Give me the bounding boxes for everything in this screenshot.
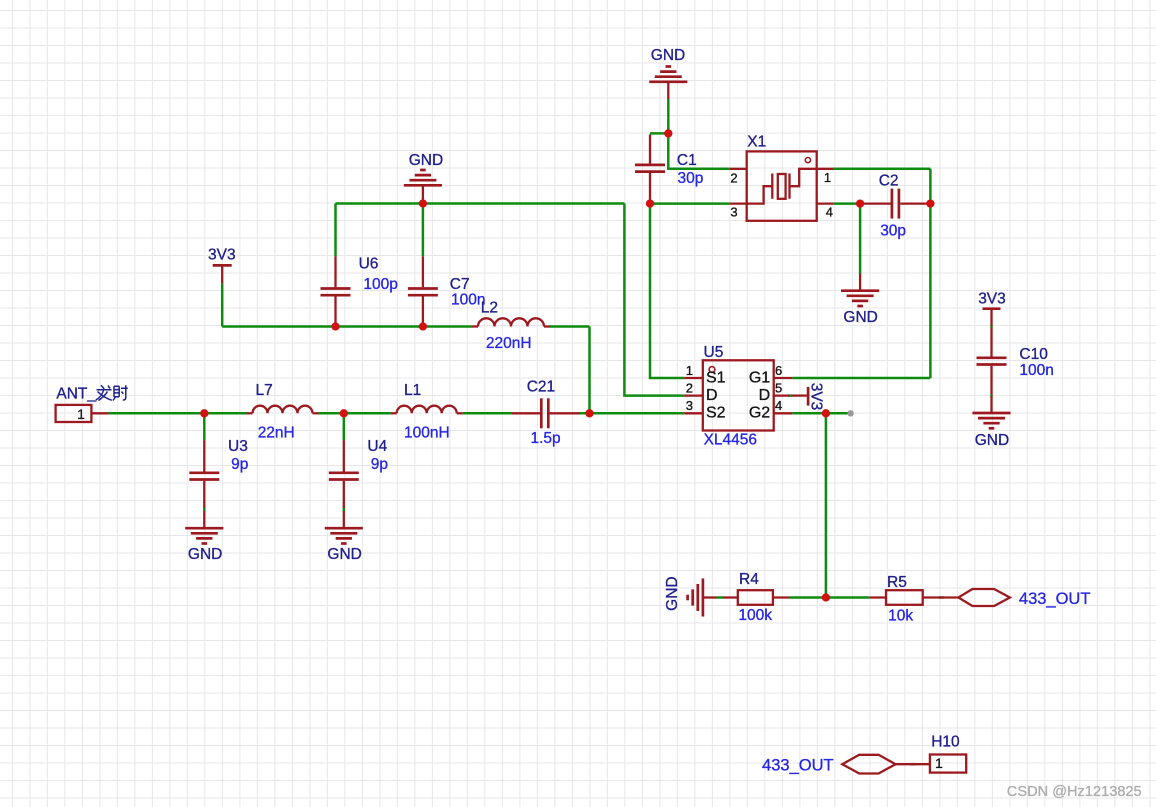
- wire C2 junction to GND: [859, 204, 862, 274]
- svg-text:GND: GND: [975, 432, 1009, 449]
- capacitor C2: [860, 172, 928, 239]
- svg-text:G2: G2: [749, 405, 770, 422]
- ground GND under C10: [972, 396, 1010, 449]
- junction J4 U6 node: [331, 322, 339, 330]
- svg-text:1: 1: [824, 170, 831, 185]
- junction J1 ANT node: [200, 409, 208, 417]
- wire corner down to RF line: [588, 327, 591, 414]
- wire down right side: [929, 169, 932, 378]
- svg-text:C1: C1: [677, 152, 697, 169]
- junction J5 C7 node: [419, 322, 427, 330]
- ground GND U3: [185, 511, 223, 563]
- capacitor C1: [635, 135, 703, 204]
- wire 3V3 stem wire: [221, 283, 224, 326]
- wire X1 pin4 to C2: [834, 202, 861, 205]
- wire pin5 dash: [788, 394, 791, 397]
- svg-text:C21: C21: [527, 378, 555, 395]
- svg-text:U3: U3: [228, 438, 248, 455]
- wire rail to corner: [336, 202, 625, 205]
- wire L2 to corner: [550, 325, 590, 328]
- svg-text:U5: U5: [704, 344, 724, 361]
- wire junction down to U4: [343, 413, 346, 440]
- svg-text:D: D: [706, 387, 718, 404]
- svg-text:GND: GND: [188, 546, 222, 563]
- junction J2 L7-L1 node: [340, 409, 348, 417]
- svg-text:30p: 30p: [880, 223, 906, 240]
- svg-text:R4: R4: [739, 571, 759, 588]
- junction J11 pin4 node: [822, 409, 830, 417]
- svg-text:2: 2: [730, 170, 737, 185]
- svg-text:220nH: 220nH: [486, 335, 532, 352]
- svg-text:10k: 10k: [888, 608, 913, 625]
- junction J7 C1 top node: [664, 129, 672, 137]
- pin 1 label of ANT connector: [77, 406, 85, 422]
- svg-text:6: 6: [775, 363, 782, 378]
- svg-text:L7: L7: [256, 382, 273, 399]
- svg-text:9p: 9p: [371, 456, 388, 473]
- capacitor C21: [511, 378, 580, 447]
- node unconnected marker: [847, 410, 853, 416]
- ground GND top: [649, 47, 687, 99]
- svg-text:3V3: 3V3: [808, 383, 825, 411]
- wire C21 to U5 pin3: [580, 412, 684, 415]
- svg-text:U6: U6: [359, 256, 379, 273]
- svg-text:1: 1: [77, 406, 85, 422]
- wire junction down to U3: [203, 413, 206, 440]
- ground GND under C2: [841, 274, 879, 326]
- svg-text:433_OUT: 433_OUT: [762, 757, 834, 775]
- svg-text:G1: G1: [749, 369, 770, 386]
- crystal X1: [729, 133, 833, 220]
- junction J8 C1 bottom node: [646, 199, 654, 207]
- ground GND at R4: [664, 576, 717, 616]
- wire 3V3 to C10 dash: [990, 325, 993, 328]
- svg-text:22nH: 22nH: [258, 424, 295, 441]
- svg-text:S2: S2: [706, 405, 726, 422]
- wire pin4 down to R line: [825, 413, 828, 597]
- watermark: [1007, 784, 1142, 800]
- capacitor C7: [408, 256, 486, 326]
- svg-text:2: 2: [686, 380, 693, 395]
- connector H10: [930, 733, 966, 772]
- wire rail to U6: [334, 204, 337, 257]
- wire L1 to C21: [463, 412, 512, 415]
- svg-text:GND: GND: [327, 546, 361, 563]
- svg-text:3V3: 3V3: [208, 246, 236, 263]
- svg-text:C2: C2: [879, 172, 899, 189]
- wire C1 bottom to X1 pin3: [650, 202, 729, 205]
- op-amp / IC U5 XL4456: [684, 344, 792, 449]
- svg-text:3: 3: [730, 205, 737, 220]
- svg-text:C10: C10: [1019, 346, 1048, 363]
- wire junction to C1 corner: [650, 132, 668, 135]
- svg-text:X1: X1: [747, 133, 766, 150]
- inductor L1: [391, 382, 463, 442]
- svg-text:1.5p: 1.5p: [531, 430, 561, 447]
- wire U5 pin6 right: [792, 377, 930, 380]
- capacitor U4: [329, 438, 388, 508]
- net flag 433_OUT bottom: [762, 755, 930, 775]
- connector ANT_TX P1: [56, 385, 128, 422]
- wire rail corner to U5 pin2: [624, 204, 684, 396]
- power 3V3 at C10: [978, 291, 1006, 326]
- svg-text:100p: 100p: [363, 276, 397, 293]
- svg-text:3V3: 3V3: [978, 291, 1006, 308]
- wire 3V3 rail: [222, 325, 472, 328]
- svg-text:100nH: 100nH: [404, 424, 450, 441]
- wire L7 to L1: [319, 412, 391, 415]
- svg-text:GND: GND: [843, 309, 877, 326]
- svg-text:S1: S1: [706, 369, 726, 386]
- power 3V3 at U5 pin5: [791, 383, 825, 411]
- svg-text:L1: L1: [404, 382, 421, 399]
- wire R5 hexagon dash: [939, 596, 944, 599]
- wire U4 gnd dash: [343, 508, 346, 511]
- svg-text:100k: 100k: [738, 607, 772, 624]
- svg-text:30p: 30p: [678, 170, 704, 187]
- junction J9 C2 left node: [856, 199, 864, 207]
- junction J3 L2 drop node: [585, 409, 593, 417]
- svg-text:3: 3: [686, 398, 693, 413]
- svg-text:1: 1: [686, 363, 693, 378]
- svg-text:4: 4: [826, 205, 833, 220]
- wire X1 pin1 right: [834, 168, 931, 171]
- svg-text:XL4456: XL4456: [704, 432, 757, 449]
- wire C1 bottom to U5 pin1: [650, 204, 684, 378]
- wire U5 pin4 out: [792, 412, 850, 415]
- junction J12 R divider node: [822, 593, 830, 601]
- svg-text:GND: GND: [409, 152, 443, 169]
- inductor L7: [247, 382, 319, 442]
- svg-text:433_OUT: 433_OUT: [1019, 590, 1091, 608]
- resistor R5: [870, 574, 959, 625]
- wire GND to R4 gap: [717, 596, 724, 599]
- svg-text:CSDN @Hz1213825: CSDN @Hz1213825: [1007, 784, 1142, 800]
- svg-text:R5: R5: [887, 574, 907, 591]
- svg-text:D: D: [759, 387, 771, 404]
- svg-text:GND: GND: [664, 576, 681, 610]
- svg-text:GND: GND: [651, 47, 685, 64]
- wire R4 to R5: [790, 596, 870, 599]
- power 3V3 left rail: [208, 246, 236, 283]
- wire ANT to L7: [109, 412, 247, 415]
- svg-text:L2: L2: [481, 299, 498, 316]
- svg-text:U4: U4: [367, 438, 387, 455]
- wire C10 to GND dash: [990, 394, 993, 397]
- resistor R4: [723, 571, 790, 624]
- svg-text:100n: 100n: [1019, 362, 1053, 379]
- ground GND mid: [404, 152, 443, 203]
- wire U3 gnd dash: [203, 508, 206, 511]
- ground GND U4: [325, 511, 363, 563]
- svg-text:5: 5: [775, 380, 782, 395]
- capacitor U6: [321, 256, 398, 327]
- capacitor U3: [189, 438, 248, 508]
- svg-text:ANT_: ANT_: [56, 385, 96, 402]
- junction J10 C2 right node: [926, 199, 934, 207]
- junction J6 rail-GND node: [419, 199, 427, 207]
- capacitor C10: [977, 328, 1054, 395]
- wire junction to X1 pin2: [668, 133, 729, 168]
- wire H10 lead dash: [910, 763, 915, 766]
- svg-text:1: 1: [935, 755, 943, 771]
- inductor L2: [472, 299, 550, 352]
- svg-text:9p: 9p: [231, 456, 248, 473]
- wire GND1 to C1 junction: [667, 99, 670, 133]
- net flag 433_OUT right: [958, 589, 1090, 608]
- svg-text:H10: H10: [931, 733, 960, 750]
- wire rail to C7: [422, 204, 425, 257]
- svg-text:4: 4: [775, 398, 782, 413]
